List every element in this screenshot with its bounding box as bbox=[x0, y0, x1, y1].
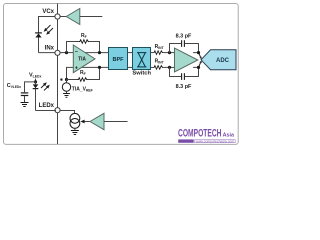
capacitor 8.3pF bottom bbox=[182, 73, 185, 80]
resistor RINT bottom bbox=[153, 66, 163, 70]
junction dot V_LED bbox=[34, 80, 37, 83]
figure frame bbox=[4, 4, 239, 145]
wire photodiode to INx node bbox=[39, 52, 57, 54]
svg-text:Switch: Switch bbox=[132, 71, 151, 77]
chip boundary vertical bus bbox=[57, 4, 59, 145]
light arrows into photodiode bbox=[45, 25, 54, 34]
buffer U2 (LED driver) bbox=[90, 113, 128, 129]
svg-text:Asia: Asia bbox=[223, 132, 235, 138]
junction dot VREF tap bbox=[65, 78, 68, 81]
svg-text:+: + bbox=[75, 66, 78, 72]
stub V_LED bbox=[35, 79, 37, 82]
svg-text:www.compotechasia.com: www.compotechasia.com bbox=[196, 139, 235, 143]
svg-text:8.3 pF: 8.3 pF bbox=[176, 84, 192, 90]
ground under TIA_VREF bbox=[63, 94, 70, 98]
svg-text:VCx: VCx bbox=[42, 9, 54, 15]
resistor RF top bbox=[79, 40, 89, 44]
node VCx pin bbox=[55, 14, 60, 19]
node LEDx pin bbox=[55, 108, 60, 113]
op-amp A2 (ADC driver) bbox=[175, 48, 198, 72]
svg-text:8.3 pF: 8.3 pF bbox=[176, 34, 192, 40]
svg-text:ADC: ADC bbox=[216, 58, 230, 64]
junction dot cap return bottom bbox=[197, 66, 200, 69]
COMPOTECH Asia watermark bbox=[178, 128, 235, 144]
wire INx to TIA minus input bbox=[60, 52, 73, 54]
ground under capacitor bbox=[21, 103, 29, 107]
bottom feedback wire left bbox=[67, 79, 78, 81]
voltage source TIA_VREF bbox=[62, 80, 70, 94]
svg-text:BPF: BPF bbox=[113, 57, 125, 63]
resistor RF bottom bbox=[78, 78, 88, 82]
TIA top output rail bbox=[84, 52, 109, 54]
junction dot at feedback tap bbox=[65, 51, 68, 54]
wire LED to LEDx node bbox=[36, 110, 57, 112]
svg-text:INx: INx bbox=[45, 45, 55, 51]
arrow into ADC top bbox=[199, 53, 201, 57]
op-amp TIA bbox=[73, 45, 95, 73]
LED D2 bbox=[33, 82, 39, 111]
light arrows from LED bbox=[41, 83, 49, 91]
svg-text:✱: ✱ bbox=[60, 77, 64, 82]
capacitor C_VLED bbox=[21, 93, 29, 96]
output rails into ADC bbox=[193, 52, 199, 54]
svg-text:TIA: TIA bbox=[78, 57, 86, 63]
top cap feedback loop bbox=[170, 44, 182, 53]
photodiode D1 bbox=[35, 33, 42, 53]
BPF block bbox=[109, 48, 128, 70]
wire LEDx to current source bbox=[60, 111, 74, 114]
ground under current source bbox=[74, 128, 76, 130]
junction dot cap tap top bbox=[168, 51, 171, 54]
buffer U1 (VCx driver) bbox=[59, 9, 102, 25]
wire VCx branch to photodiode bbox=[39, 17, 57, 33]
junction dot top output bbox=[98, 51, 101, 54]
ADC block bbox=[201, 50, 236, 70]
rails Switch to RINT bbox=[151, 52, 154, 54]
junction dot cap return top bbox=[197, 51, 200, 54]
capacitor 8.3pF top bbox=[182, 40, 185, 47]
current source I_LED bbox=[70, 113, 80, 128]
rails RINT to amp bbox=[163, 52, 174, 54]
top feedback branch wire bbox=[67, 42, 80, 53]
bottom feedback right wire bbox=[88, 67, 100, 79]
rails BPF to Switch bbox=[128, 52, 133, 54]
svg-text:−: − bbox=[75, 49, 78, 55]
node INx pin bbox=[55, 50, 60, 55]
TIA bottom output rail bbox=[81, 66, 109, 68]
bottom cap feedback loop bbox=[170, 67, 182, 76]
resistor RINT top bbox=[153, 51, 163, 55]
junction dot bottom output bbox=[98, 66, 101, 69]
top feedback right wire bbox=[89, 42, 99, 53]
wire to capacitor bbox=[25, 82, 36, 92]
svg-text:LEDx: LEDx bbox=[39, 103, 55, 109]
svg-text:COMPOTECH: COMPOTECH bbox=[178, 128, 222, 140]
Switch block bbox=[132, 48, 151, 77]
arrow into ADC bottom bbox=[199, 63, 201, 68]
junction dot cap tap bottom bbox=[168, 66, 171, 69]
arrow into current source bbox=[84, 121, 90, 123]
TIA bottom input wire bbox=[67, 67, 74, 79]
